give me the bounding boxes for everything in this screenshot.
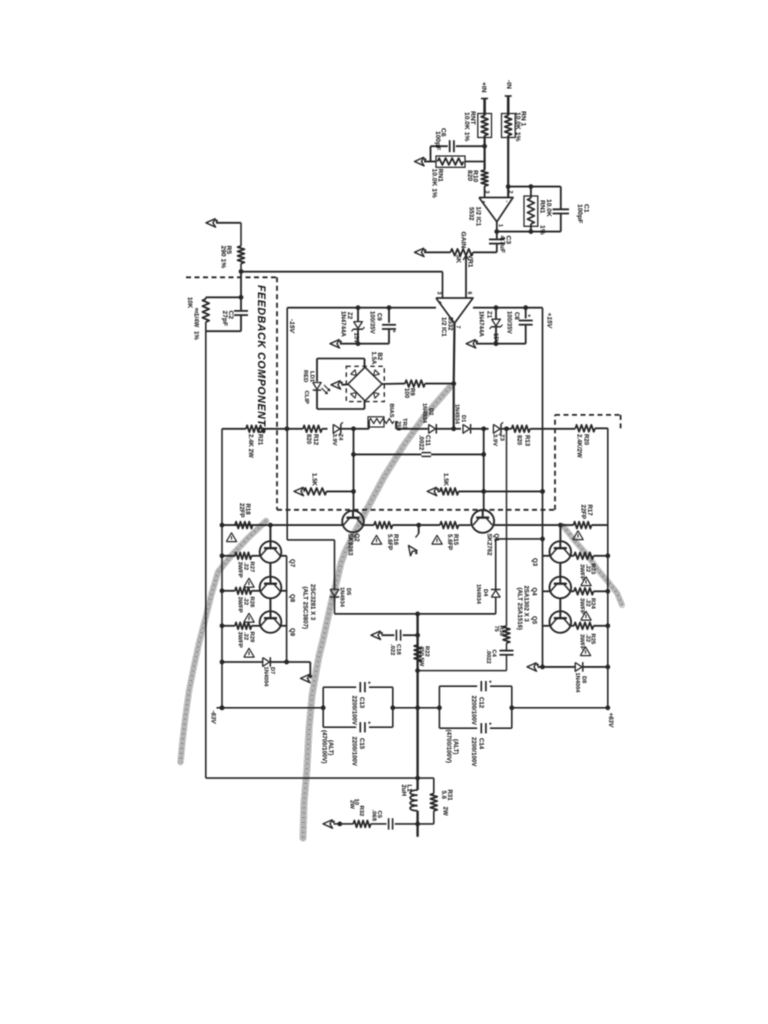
resistor R31 5.6 2W xyxy=(433,778,435,793)
wire (LED loop) xyxy=(317,358,365,360)
resistor R22 450 5W xyxy=(414,645,421,662)
wiper wire xyxy=(465,257,467,299)
resistor R20 2.4K/2W xyxy=(575,425,595,432)
svg-text:D1: D1 xyxy=(460,415,466,422)
zener Z1 1N4744A xyxy=(495,308,497,319)
svg-text:1N4934: 1N4934 xyxy=(421,403,427,424)
svg-text:3.9V: 3.9V xyxy=(492,434,498,446)
svg-text:SK2762: SK2762 xyxy=(486,534,493,557)
svg-text:1.5A: 1.5A xyxy=(370,352,377,365)
svg-text:3: 3 xyxy=(484,191,490,194)
svg-text:.0022: .0022 xyxy=(485,650,491,664)
svg-text:-63V: -63V xyxy=(210,711,217,725)
svg-text:(4700/100V): (4700/100V) xyxy=(320,730,327,764)
svg-text:C13: C13 xyxy=(358,697,365,709)
capacitor C2 xyxy=(234,310,248,312)
+15V rail xyxy=(473,307,543,309)
svg-text:820: 820 xyxy=(515,435,522,446)
svg-text:.068: .068 xyxy=(371,810,377,822)
wire (feedback tap) xyxy=(206,777,434,779)
connector arrow (input gnd) xyxy=(424,161,431,163)
watermark stroke left xyxy=(181,521,267,762)
svg-text:1N4934: 1N4934 xyxy=(475,584,481,605)
svg-text:5.6FP: 5.6FP xyxy=(386,534,393,550)
svg-text:+: + xyxy=(480,201,486,204)
wire xyxy=(484,136,486,171)
svg-text:+63V: +63V xyxy=(607,713,614,728)
svg-text:1N4934: 1N4934 xyxy=(339,587,345,608)
svg-text:Q4: Q4 xyxy=(531,588,538,597)
svg-text:3: 3 xyxy=(436,292,442,295)
svg-text:GAIN: GAIN xyxy=(460,232,467,249)
wire xyxy=(507,136,509,198)
svg-text:3WFP: 3WFP xyxy=(579,634,585,650)
svg-text:1.5K: 1.5K xyxy=(310,473,317,486)
svg-text:D8: D8 xyxy=(581,676,587,683)
svg-text:1.5K: 1.5K xyxy=(442,473,449,486)
diode D1 1N4934 xyxy=(454,428,461,430)
capacitor C8 xyxy=(525,308,527,319)
transistor Q2 SK9263 xyxy=(342,511,364,533)
resistor R5 xyxy=(240,223,242,246)
connector arrow (gnd) xyxy=(323,820,333,829)
svg-text:5.6: 5.6 xyxy=(440,791,447,800)
wire xyxy=(281,590,287,592)
svg-text:3WFP: 3WFP xyxy=(237,597,243,613)
resistor R17 22FP xyxy=(574,522,592,529)
svg-text:Q9: Q9 xyxy=(288,628,295,637)
diode D4 1N4934 xyxy=(495,539,497,590)
svg-text:2200/100V: 2200/100V xyxy=(470,737,477,767)
svg-text:(ALT 2SC3807): (ALT 2SC3807) xyxy=(301,587,308,630)
wire (IC1b output) xyxy=(453,323,456,383)
svg-text:2: 2 xyxy=(507,191,513,194)
resistor R23 .22 3WFP xyxy=(543,555,551,557)
svg-text:2.4K 2W: 2.4K 2W xyxy=(247,434,254,458)
feedback network RN1/C1 xyxy=(508,186,561,188)
resistor RN1 (-IN leg) xyxy=(502,114,516,138)
svg-text:2200/100V: 2200/100V xyxy=(470,696,477,726)
wire (left rail) xyxy=(221,429,223,708)
watermark stroke right xyxy=(563,526,622,605)
capacitor C1 xyxy=(553,208,569,210)
svg-text:C12: C12 xyxy=(478,697,485,709)
wire (Q1 base) xyxy=(483,429,485,510)
capacitor C4 .0022 xyxy=(506,643,508,650)
diode D7 1N4004 xyxy=(222,661,263,663)
-15V rail xyxy=(287,307,436,309)
resistor R9 100 xyxy=(382,383,405,385)
capacitor C9 xyxy=(388,308,390,323)
svg-text:22FP: 22FP xyxy=(579,505,586,520)
svg-text:LD1: LD1 xyxy=(308,371,314,383)
svg-text:(4700/100V): (4700/100V) xyxy=(445,730,452,764)
svg-text:Z1: Z1 xyxy=(485,311,492,319)
resistor RN1 (input shunt) xyxy=(436,156,465,167)
resistor R27 .22 3WFP xyxy=(222,555,235,557)
watermark stroke center xyxy=(303,387,450,838)
resistor R25 .22 3WFP xyxy=(543,625,551,627)
capacitor bank C12/C14 xyxy=(439,685,477,687)
wire xyxy=(240,272,242,311)
resistor 1.5K (right) xyxy=(427,487,437,496)
svg-text:75: 75 xyxy=(493,626,499,632)
svg-text:C8: C8 xyxy=(513,312,520,320)
svg-text:R12: R12 xyxy=(312,434,319,446)
svg-text:D7: D7 xyxy=(269,667,275,674)
svg-text:-: - xyxy=(504,201,510,203)
svg-text:.0022: .0022 xyxy=(418,435,425,451)
transistor Q1 SK2762 xyxy=(471,510,494,533)
resistor R13 820 xyxy=(512,425,530,432)
inductor L1 2uH xyxy=(410,790,418,811)
svg-text:(ALT 2SA1516): (ALT 2SA1516) xyxy=(516,588,523,631)
wire (output node) xyxy=(335,613,496,615)
resistor RN1 (+IN leg) xyxy=(478,114,492,138)
capacitor C18 .022 xyxy=(371,631,381,640)
trimmer TR3 250 BIAS xyxy=(354,428,370,430)
svg-text:+15V: +15V xyxy=(546,313,553,329)
svg-text:1%: 1% xyxy=(538,225,545,235)
svg-text:820: 820 xyxy=(466,170,473,181)
svg-text:10K: 10K xyxy=(186,297,193,309)
LED LD1 RED CLIP xyxy=(316,359,318,382)
svg-text:450 5W: 450 5W xyxy=(418,646,424,667)
svg-text:1%: 1% xyxy=(192,331,199,340)
svg-text:1N4744A: 1N4744A xyxy=(478,311,485,337)
svg-text:1N4934: 1N4934 xyxy=(454,404,460,425)
connector arrow (feedback in) xyxy=(206,219,216,228)
wire (-15V feed) xyxy=(286,308,288,540)
svg-text:-15V: -15V xyxy=(288,319,295,334)
connector arrow (output tap) xyxy=(418,525,420,533)
svg-text:D2: D2 xyxy=(427,408,433,415)
capacitor C11 .0022 xyxy=(354,453,422,455)
svg-text:4.7uF: 4.7uF xyxy=(499,236,506,253)
transistor Q3 xyxy=(550,541,572,563)
svg-text:2200/100V: 2200/100V xyxy=(350,696,357,726)
svg-text:C15: C15 xyxy=(358,738,365,750)
wire xyxy=(496,538,543,540)
svg-text:820: 820 xyxy=(305,434,312,445)
capacitor C3 xyxy=(496,222,498,240)
resistor R36 75 xyxy=(506,429,508,626)
resistor R15 5.6FP xyxy=(440,522,459,529)
svg-text:C14: C14 xyxy=(478,738,485,750)
svg-text:22FP: 22FP xyxy=(238,503,245,518)
connector arrow (clip) xyxy=(331,381,341,390)
ground arrow xyxy=(476,343,526,345)
capacitor C5 .068 xyxy=(395,823,418,825)
svg-text:SK9263: SK9263 xyxy=(346,534,353,557)
svg-text:100/35V: 100/35V xyxy=(369,311,376,335)
svg-text:2uH: 2uH xyxy=(400,785,407,797)
svg-text:.22: .22 xyxy=(243,597,249,606)
svg-text:2.4K/2W: 2.4K/2W xyxy=(576,434,583,458)
ground arrow xyxy=(340,343,389,345)
transistor Q7 xyxy=(260,541,282,563)
svg-text:.22: .22 xyxy=(243,632,249,641)
diode D5 1N4934 xyxy=(334,540,336,590)
svg-text:R21: R21 xyxy=(256,434,263,446)
wire (+15V drop) xyxy=(542,308,544,667)
wire (-63V bus) xyxy=(217,707,324,709)
transistor Q8 xyxy=(260,577,282,599)
diode D2 1N4934 xyxy=(429,424,436,433)
svg-text:D5: D5 xyxy=(345,588,351,595)
wire (bias bus) xyxy=(264,428,287,430)
svg-text:250: 250 xyxy=(395,421,401,432)
wire xyxy=(281,625,287,627)
wire xyxy=(418,670,507,672)
wire xyxy=(483,99,486,116)
transistor Q9 xyxy=(260,611,282,633)
svg-text:-IN: -IN xyxy=(505,80,512,89)
svg-text:Q7: Q7 xyxy=(288,559,295,568)
resistor R28 .22 3WFP xyxy=(222,590,235,592)
wire (+63V bus) xyxy=(512,707,608,709)
resistor RN1 (feedback) xyxy=(524,196,538,226)
svg-text:2W: 2W xyxy=(442,807,449,816)
svg-text:6: 6 xyxy=(466,292,472,295)
bridge rectifier B2 1.5A xyxy=(348,367,382,401)
svg-text:27pF: 27pF xyxy=(221,311,228,327)
svg-text:D4: D4 xyxy=(482,589,488,597)
wire (driver row) xyxy=(222,524,342,526)
svg-text:1N4004: 1N4004 xyxy=(263,667,269,688)
svg-text:5K: 5K xyxy=(454,255,461,264)
op-amp U1b 1/2 IC1 5532 xyxy=(436,298,473,323)
svg-text:3WFP: 3WFP xyxy=(237,632,243,648)
resistor R10 xyxy=(481,170,488,186)
svg-text:3WFP: 3WFP xyxy=(579,598,585,614)
wire xyxy=(393,707,440,709)
svg-text:100: 100 xyxy=(403,388,410,399)
wire xyxy=(364,524,374,526)
svg-text:+: + xyxy=(437,301,443,304)
svg-text:5.6FP: 5.6FP xyxy=(446,534,453,550)
svg-text:10.0K 1%: 10.0K 1% xyxy=(514,112,521,141)
svg-text:2200/100V: 2200/100V xyxy=(350,737,357,767)
svg-text:R13: R13 xyxy=(523,435,530,447)
connector arrow xyxy=(287,661,311,663)
resistor 1.5K (left) xyxy=(294,487,304,496)
svg-text:2SC3281 X 3: 2SC3281 X 3 xyxy=(309,584,316,621)
svg-text:2W: 2W xyxy=(348,800,354,809)
potentiometer VR1 GAIN 5K xyxy=(473,251,497,253)
wire (Q3-Q5 base bus) xyxy=(559,525,561,541)
svg-text:Q8: Q8 xyxy=(288,594,295,603)
svg-text:+IN: +IN xyxy=(480,82,487,93)
svg-text:290 1%: 290 1% xyxy=(219,246,226,269)
svg-text:CLIP: CLIP xyxy=(303,391,309,404)
wire (Q7-Q9 base bus) xyxy=(269,525,271,541)
resistor R12 820 xyxy=(303,425,322,432)
svg-text:10.0K 1%: 10.0K 1% xyxy=(431,169,438,198)
resistor R24 .22 3WFP xyxy=(543,590,551,592)
svg-text:1N4004: 1N4004 xyxy=(574,673,580,694)
svg-text:Z3: Z3 xyxy=(499,434,505,442)
zener Z4 3.9V xyxy=(322,428,328,430)
wire xyxy=(484,186,486,198)
diode D8 1N4004 xyxy=(527,663,537,672)
svg-text:R32: R32 xyxy=(358,806,364,818)
wire xyxy=(281,555,287,557)
svg-text:RED: RED xyxy=(302,370,308,382)
resistor R29 .22 3WFP xyxy=(222,625,235,627)
resistor R32 10 2W xyxy=(353,821,370,828)
wire (left feedback rail) xyxy=(205,322,207,778)
svg-text:100pF: 100pF xyxy=(576,204,583,223)
wire (collector rail) xyxy=(286,556,288,662)
svg-text:1/2 IC1: 1/2 IC1 xyxy=(440,317,447,337)
transistor Q4 xyxy=(550,577,572,599)
svg-text:3WFP: 3WFP xyxy=(237,562,243,578)
zener Z2 1N4744A xyxy=(357,308,359,322)
zener Z3 3.9V xyxy=(484,428,489,430)
resistor R16 5.6FP xyxy=(374,522,393,529)
transistor Q5 xyxy=(550,611,572,633)
feedback components dashed box xyxy=(186,276,277,278)
resistor R6 xyxy=(205,297,207,299)
op-amp U1a 1/2 IC1 5532 xyxy=(479,198,513,222)
svg-text:FEEDBACK COMPONENTS: FEEDBACK COMPONENTS xyxy=(255,285,267,434)
resistor R21 2.4K 2W xyxy=(246,425,264,432)
svg-text:BIAS: BIAS xyxy=(388,404,394,418)
svg-text:.22: .22 xyxy=(243,562,249,571)
svg-text:.022: .022 xyxy=(389,644,395,656)
svg-text:100pF: 100pF xyxy=(434,131,441,150)
wire xyxy=(507,96,510,116)
svg-text:(ALT): (ALT) xyxy=(452,739,459,754)
svg-text:100/35V: 100/35V xyxy=(506,311,513,335)
wire (main output) xyxy=(416,614,418,790)
resistor R18 22FP xyxy=(235,522,253,529)
wire (right rail) xyxy=(607,428,609,708)
svg-text:1: 1 xyxy=(497,224,503,227)
svg-text:1N4744A: 1N4744A xyxy=(340,311,347,337)
svg-text:Q5: Q5 xyxy=(531,616,538,625)
svg-text:RN1: RN1 xyxy=(538,200,545,214)
wire (Q2 base) xyxy=(353,429,355,511)
svg-text:3WFP: 3WFP xyxy=(579,564,585,580)
svg-text:5532: 5532 xyxy=(468,207,475,221)
svg-text:Q3: Q3 xyxy=(531,558,538,567)
svg-text:10.0K 1%: 10.0K 1% xyxy=(463,112,470,141)
wire (fb bus) xyxy=(241,271,443,273)
capacitor C6 xyxy=(456,145,485,147)
svg-text:1/4W: 1/4W xyxy=(192,313,199,327)
svg-text:3.9V: 3.9V xyxy=(331,434,337,446)
capacitor bank C13/C15 xyxy=(323,686,356,688)
wire xyxy=(494,524,573,526)
